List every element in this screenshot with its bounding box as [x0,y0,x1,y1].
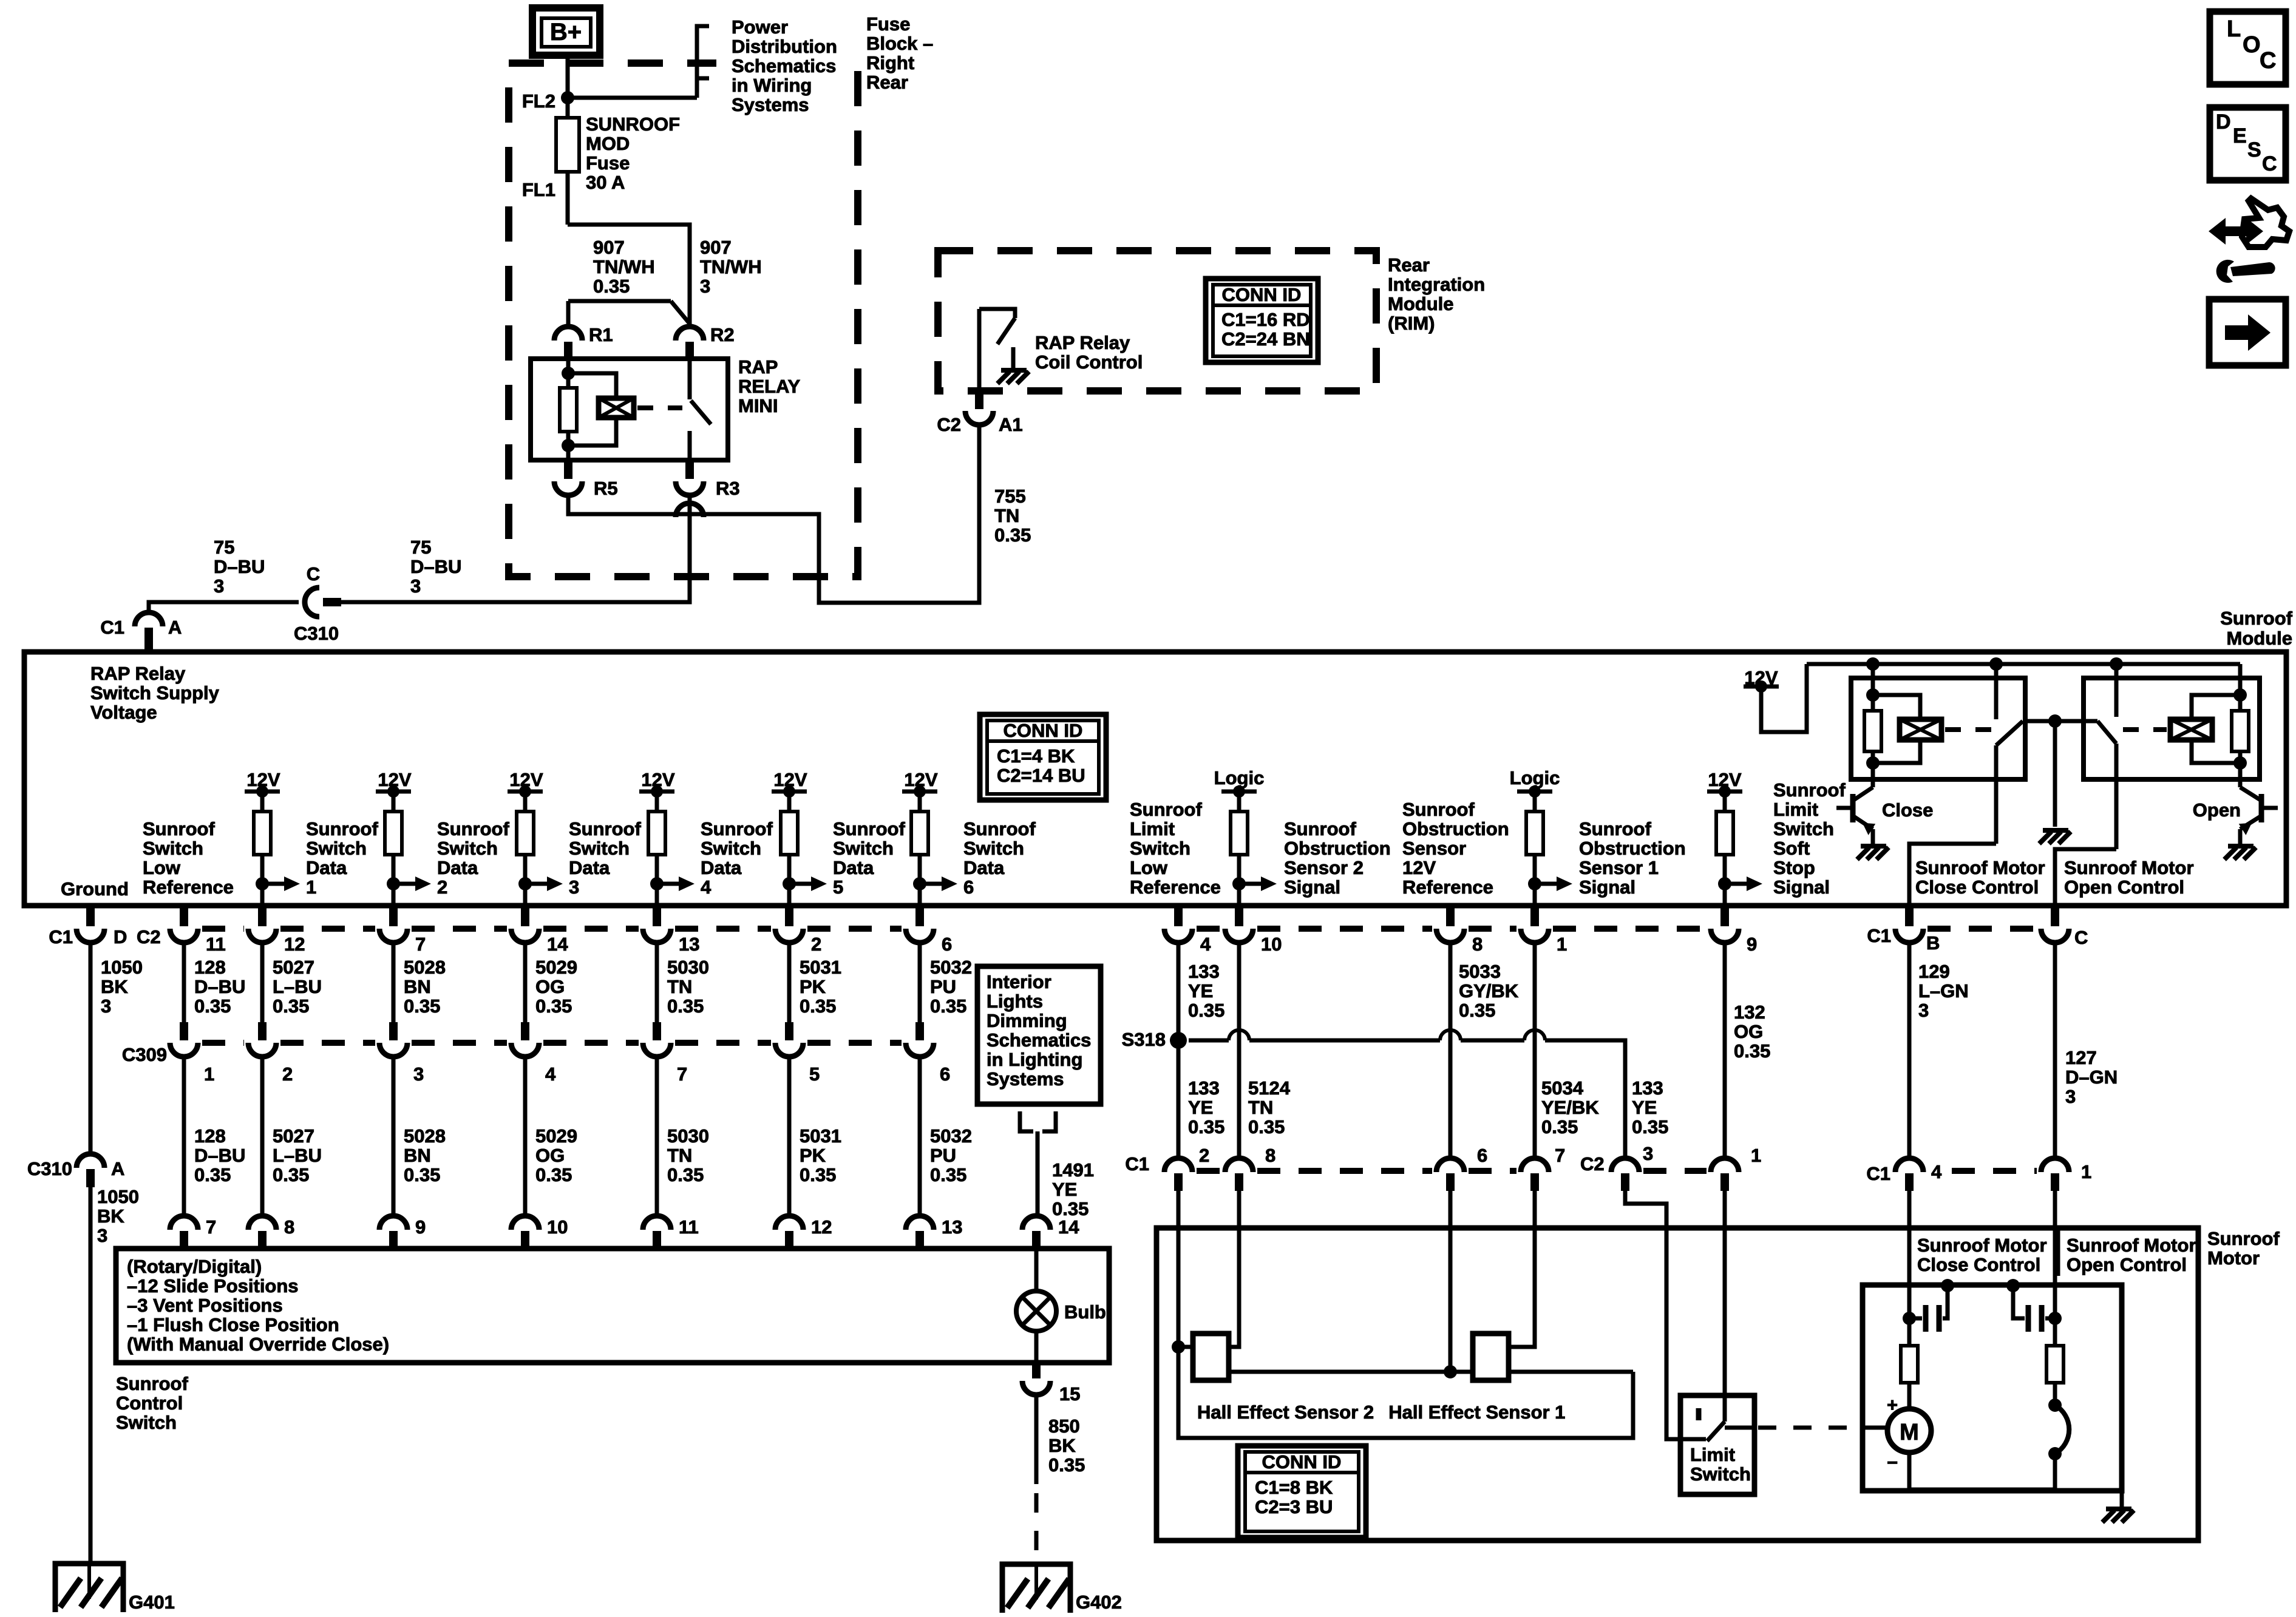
wire sunroof motor close control [1909,844,1996,906]
wire col 648 row1-row2 [392,942,396,1022]
svg-text:G401: G401 [129,1592,175,1613]
svg-text:Sunroof Motor: Sunroof Motor [1915,857,2045,878]
svg-text:5030: 5030 [667,957,709,978]
svg-text:5: 5 [833,876,843,898]
svg-text:Switch: Switch [963,838,1024,859]
svg-text:Data: Data [437,857,478,878]
svg-text:PU: PU [930,1145,956,1166]
connector switch pin 13 [906,1216,934,1230]
svg-text:5124: 5124 [1248,1077,1291,1099]
svg-text:Sensor 1: Sensor 1 [1579,857,1659,878]
svg-text:Sunroof: Sunroof [2207,1228,2280,1249]
wire pin B down [1907,942,1912,1160]
svg-text:RAP Relay: RAP Relay [1035,332,1130,353]
svg-text:C310: C310 [27,1158,72,1179]
motor inner box ground [2120,1491,2124,1507]
svg-text:TN: TN [994,505,1019,526]
wire pin1 to limit switch [1723,1191,1727,1422]
svg-text:SUNROOF: SUNROOF [586,114,680,135]
connector pin 8 row1 [1446,906,1455,926]
svg-text:Logic: Logic [1214,767,1265,788]
svg-text:0.35: 0.35 [667,1164,704,1185]
svg-text:0.35: 0.35 [667,995,704,1017]
svg-text:CONN ID: CONN ID [1004,720,1083,741]
svg-text:S318: S318 [1122,1029,1166,1050]
connector pin 13 row1 [653,906,661,926]
svg-text:C1=4 BK: C1=4 BK [997,745,1075,767]
svg-text:L–BU: L–BU [273,976,322,997]
svg-text:C309: C309 [122,1044,167,1065]
svg-text:BK: BK [1048,1435,1076,1456]
svg-text:C1: C1 [1125,1153,1149,1175]
svg-text:3: 3 [1643,1143,1653,1164]
svg-text:C1: C1 [100,617,124,638]
svg-text:(RIM): (RIM) [1388,313,1435,334]
connector C309 dashed line [202,1040,244,1046]
svg-text:Schematics: Schematics [732,55,836,76]
svg-text:MOD: MOD [586,133,630,154]
svg-text:7: 7 [415,934,426,955]
open relay switch [2114,664,2119,717]
connector switch pin 15 [1032,1363,1041,1378]
connector switch pin 11 [643,1216,671,1230]
transistor Q close [1850,794,1856,822]
svg-text:Low: Low [143,857,181,878]
svg-text:C2: C2 [937,414,961,435]
svg-text:Logic: Logic [1510,767,1560,788]
connector C309 pin 6 [915,1022,924,1040]
svg-text:4: 4 [701,876,712,898]
svg-text:Switch: Switch [116,1412,177,1433]
fuse SUNROOF MOD 30A [566,98,570,118]
svg-text:2: 2 [1199,1145,1209,1166]
svg-text:Open: Open [2193,799,2241,821]
svg-text:3: 3 [413,1063,424,1085]
RAP relay mini box [531,359,728,460]
motor bottom bus [1909,1488,2055,1492]
svg-text:Sunroof Motor: Sunroof Motor [2064,857,2194,878]
icon DESC box [2210,107,2286,180]
open relay resistor [2238,664,2243,711]
svg-text:Ground: Ground [61,878,129,900]
svg-text:–1 Flush Close Position: –1 Flush Close Position [127,1314,339,1335]
svg-text:Limit: Limit [1690,1444,1735,1465]
svg-text:TN/WH: TN/WH [593,256,655,277]
connector switch pin 14 [1022,1216,1050,1230]
svg-text:B+: B+ [550,19,582,46]
relay common ground node [2048,714,2062,728]
capacitor open side [2006,1279,2020,1292]
svg-text:Data: Data [963,857,1005,878]
module conn id box [980,714,1106,800]
icon forward arrow box [2209,299,2286,365]
signal arrow sunroof switch data 1 [256,877,269,890]
relay coil link dashed [637,405,682,410]
svg-text:Sunroof: Sunroof [1773,779,1846,801]
wire pin2 to hall frame [1177,1191,1181,1347]
svg-text:M: M [1900,1420,1919,1445]
connector bottom pin 4 x3145 [1895,1158,1923,1172]
svg-text:Switch Supply: Switch Supply [90,682,220,703]
svg-text:12: 12 [811,1216,832,1238]
svg-text:Sunroof Motor: Sunroof Motor [1917,1235,2047,1256]
svg-text:Voltage: Voltage [90,702,157,723]
svg-text:0.35: 0.35 [535,1164,572,1185]
close relay coil link dashed [1945,727,1992,732]
relay bus 12V [1807,662,2240,666]
wire col 1515 row1-row2 [918,942,922,1022]
wire col 303 row1-row2 [182,942,186,1022]
svg-text:C1=8 BK: C1=8 BK [1255,1477,1333,1498]
svg-text:0.35: 0.35 [1734,1040,1770,1062]
hall effect sensor 2 box [1193,1334,1229,1380]
svg-text:Sunroof: Sunroof [963,818,1036,839]
svg-text:Close: Close [1882,799,1933,821]
svg-text:5030: 5030 [667,1125,709,1147]
svg-text:C310: C310 [294,623,339,644]
svg-text:Sunroof: Sunroof [1402,799,1475,820]
close relay pivot link [2023,719,2055,724]
svg-text:3: 3 [1918,1000,1929,1021]
svg-text:FL2: FL2 [522,90,555,112]
svg-text:755: 755 [994,486,1026,507]
svg-text:Sunroof: Sunroof [1284,818,1356,839]
svg-text:5033: 5033 [1459,961,1501,982]
svg-text:MINI: MINI [738,395,778,416]
connector pin 2 row1 [785,906,793,926]
svg-text:RAP: RAP [738,356,778,378]
svg-text:Schematics: Schematics [987,1029,1091,1051]
interior lights dimming box [977,966,1101,1104]
svg-text:5032: 5032 [930,957,972,978]
svg-text:in Lighting: in Lighting [987,1049,1082,1070]
wire pin7 to hall1 [1509,1191,1535,1347]
svg-text:D: D [2216,110,2231,134]
ground G401 [55,1564,123,1612]
svg-text:Integration: Integration [1388,274,1485,295]
svg-text:R5: R5 [594,478,618,499]
svg-text:FL1: FL1 [522,179,555,200]
svg-text:1: 1 [204,1063,214,1085]
wire FL1 to R2 [568,225,690,327]
wire col 1082 row1-row2 [655,942,659,1022]
svg-text:C: C [2262,152,2277,175]
svg-text:Sunroof: Sunroof [306,818,378,839]
svg-text:Reference: Reference [1130,876,1221,898]
svg-text:Sunroof: Sunroof [116,1373,188,1394]
svg-text:6: 6 [1477,1145,1487,1166]
svg-text:C1: C1 [1867,925,1891,946]
svg-text:1050: 1050 [97,1186,139,1207]
wire R3 to C310 75 D-BU [340,495,690,602]
svg-text:4: 4 [1200,934,1211,955]
svg-text:11: 11 [679,1216,699,1238]
svg-text:Sunroof: Sunroof [437,818,509,839]
svg-text:0.35: 0.35 [1048,1454,1085,1476]
relay coil resistor branch [566,359,571,388]
hall sensor bus [1229,1370,1473,1374]
svg-text:0.35: 0.35 [1052,1198,1089,1219]
motor brush resistor open [2046,1346,2063,1383]
svg-text:0.35: 0.35 [800,1164,836,1185]
svg-text:L–BU: L–BU [273,1145,322,1166]
svg-text:12: 12 [284,934,305,955]
svg-text:0.35: 0.35 [930,995,966,1017]
svg-text:C: C [307,563,320,585]
connector pin 10 row1 [1235,906,1243,926]
svg-text:Fuse: Fuse [866,13,910,35]
svg-text:4: 4 [545,1063,556,1085]
svg-text:L: L [2227,16,2241,42]
svg-text:Open Control: Open Control [2064,876,2184,898]
svg-text:Sunroof: Sunroof [2220,608,2292,629]
svg-text:7: 7 [1555,1145,1565,1166]
svg-text:C2: C2 [1580,1153,1605,1175]
svg-text:TN: TN [667,1145,692,1166]
signal arrow sunroof switch data 4 [650,877,664,890]
connector bottom pin 6 x2389 [1436,1158,1464,1172]
wire 850 BK to G402 [1034,1394,1039,1484]
svg-text:Open Control: Open Control [2067,1254,2187,1275]
svg-text:Switch: Switch [833,838,894,859]
wire pin10 down [1237,942,1241,1160]
connector pin 11 row1 [180,906,188,926]
svg-text:128: 128 [194,1125,226,1147]
svg-text:TN: TN [667,976,692,997]
svg-text:Fuse: Fuse [586,152,630,174]
svg-text:8: 8 [284,1216,294,1238]
svg-text:C: C [2074,927,2088,948]
svg-text:0.35: 0.35 [930,1164,966,1185]
svg-text:Dimming: Dimming [987,1010,1067,1031]
hall effect sensor 1 box [1473,1334,1509,1380]
svg-text:C1: C1 [49,926,73,947]
wire 12V to relay bus [1761,664,1807,732]
connector switch pin 12 [775,1216,803,1230]
ground close transistor [1857,846,1889,859]
capacitor close side [1903,1312,1916,1325]
wire col 865 row1-row2 [523,942,528,1022]
svg-text:1: 1 [1751,1145,1761,1166]
svg-text:6: 6 [963,876,974,898]
ground in RIM [1011,347,1016,368]
fuse block dashed box [509,63,858,577]
svg-text:127: 127 [2065,1047,2097,1068]
hall sensor frame [1172,1340,1185,1354]
connector C2 A1 [975,391,983,409]
signal arrow sunroof switch data 3 [518,877,532,890]
sunroof module box [24,652,2286,906]
connector pin 7 row1 [389,906,398,926]
close relay coil [1873,695,1920,719]
svg-text:850: 850 [1048,1415,1080,1437]
svg-text:5028: 5028 [404,957,446,978]
svg-text:Reference: Reference [143,876,234,898]
svg-text:Motor: Motor [2207,1247,2260,1269]
svg-text:Sunroof: Sunroof [143,818,215,839]
ground open transistor [2224,846,2256,859]
close relay switch [1994,664,1999,719]
svg-text:4: 4 [1931,1161,1942,1182]
connector pin 1 row1 [1530,906,1539,926]
svg-text:Obstruction: Obstruction [1402,818,1509,839]
svg-text:–12 Slide Positions: –12 Slide Positions [127,1275,299,1297]
svg-text:907: 907 [593,237,625,258]
wire S318 down [1177,1040,1181,1160]
svg-text:Data: Data [701,857,742,878]
pullup resistor sunroof switch data 3 [517,812,534,855]
connector pin 6 row1 [915,906,924,926]
motor inner box [1863,1285,2122,1491]
wire open branch [2053,1286,2057,1318]
svg-text:1: 1 [2081,1161,2091,1182]
svg-text:D–BU: D–BU [194,1145,245,1166]
svg-text:RAP Relay: RAP Relay [90,663,186,684]
limit switch contact [1696,1408,1702,1420]
svg-text:D–BU: D–BU [410,556,461,577]
svg-text:A: A [168,617,182,638]
svg-text:R1: R1 [589,324,613,345]
svg-text:Rear: Rear [1388,254,1430,276]
svg-text:Sunroof: Sunroof [1579,818,1651,839]
svg-text:Switch: Switch [143,838,203,859]
wire tap to R1 [568,299,671,303]
svg-text:Data: Data [306,857,347,878]
wire pin C down [2053,942,2057,1160]
svg-text:8: 8 [1472,934,1483,955]
svg-text:BN: BN [404,976,431,997]
svg-text:133: 133 [1632,1077,1663,1099]
svg-text:(With Manual Override Close): (With Manual Override Close) [127,1334,389,1355]
connector pin 4 row1 [1174,906,1183,926]
limit switch box [1680,1395,1754,1494]
svg-text:0.35: 0.35 [1248,1116,1285,1137]
svg-text:3: 3 [97,1225,107,1246]
svg-text:Switch: Switch [701,838,761,859]
svg-text:−: − [1887,1452,1898,1473]
pullup resistor sunroof switch data 1 [254,812,271,855]
svg-text:0.35: 0.35 [535,995,572,1017]
svg-text:1: 1 [1557,934,1567,955]
svg-text:Systems: Systems [987,1068,1064,1090]
wire pin1 to motor open [2053,1191,2057,1286]
svg-text:5032: 5032 [930,1125,972,1147]
svg-text:5028: 5028 [404,1125,446,1147]
svg-text:O: O [2243,32,2261,58]
svg-text:0.35: 0.35 [194,995,231,1017]
connector C309 pin 7 [653,1022,661,1040]
connector C310 A [76,1154,104,1168]
connector switch pin 8 [248,1216,276,1230]
svg-text:Control: Control [116,1392,183,1414]
wire pin1 down [1533,942,1537,1160]
svg-text:12V: 12V [1402,857,1436,878]
pullup resistor sunroof switch data 5 [781,812,798,855]
wire C310 to C1-A [149,602,299,612]
connector R2 [676,327,704,341]
connector R3 [685,460,694,479]
svg-text:14: 14 [547,934,568,955]
svg-text:in Wiring: in Wiring [732,75,812,96]
svg-text:BK: BK [97,1205,124,1227]
open relay pivot link [2055,719,2097,724]
svg-text:Distribution: Distribution [732,36,837,57]
signal arrow sunroof switch data 2 [387,877,400,890]
svg-text:9: 9 [415,1216,426,1238]
label divider [2056,1228,2060,1276]
svg-text:Obstruction: Obstruction [1284,838,1391,859]
svg-text:Data: Data [833,857,874,878]
node FL2 [561,91,574,104]
svg-text:A: A [111,1158,124,1179]
svg-text:0.35: 0.35 [1188,1000,1224,1021]
svg-text:0.35: 0.35 [1632,1116,1668,1137]
svg-text:D–GN: D–GN [2065,1066,2118,1088]
svg-text:Switch: Switch [569,838,630,859]
svg-text:0.35: 0.35 [194,1164,231,1185]
svg-text:Close Control: Close Control [1917,1254,2040,1275]
signal arrow sunroof switch data 5 [783,877,796,890]
connector pin B row1 [1905,906,1914,926]
svg-text:R2: R2 [710,324,735,345]
svg-text:Switch: Switch [437,838,498,859]
svg-text:133: 133 [1188,961,1220,982]
svg-text:D–BU: D–BU [194,976,245,997]
wire R5 to RIM A1 755 TN [568,424,979,603]
svg-text:Block –: Block – [866,33,933,54]
wire pin3 to limit switch [1625,1188,1680,1439]
svg-text:C: C [2260,48,2276,73]
svg-text:Sunroof: Sunroof [833,818,905,839]
svg-text:1050: 1050 [101,957,143,978]
motor conn id box [1238,1446,1366,1537]
svg-text:3: 3 [410,575,421,597]
svg-text:0.35: 0.35 [273,995,309,1017]
svg-text:YE: YE [1052,1179,1077,1200]
wire pin4 down to S318 [1177,942,1181,1040]
connector C309 pin 5 [785,1022,793,1040]
svg-text:5031: 5031 [800,1125,841,1147]
connector C1 A [135,612,163,626]
svg-text:Interior: Interior [987,971,1051,992]
svg-text:Sunroof: Sunroof [569,818,641,839]
connector pin 12 row1 [258,906,267,926]
svg-text:5027: 5027 [273,1125,314,1147]
svg-text:D: D [114,926,127,947]
svg-text:Sunroof Motor: Sunroof Motor [2067,1235,2196,1256]
svg-text:0.35: 0.35 [994,524,1031,546]
connector pin C row1 [2051,906,2059,926]
svg-text:Hall Effect Sensor 2 Hall Eff: Hall Effect Sensor 2 Hall Effect Sensor … [1197,1402,1565,1423]
svg-text:C2=24 BN: C2=24 BN [1221,328,1310,350]
svg-text:0.35: 0.35 [593,276,630,297]
svg-text:D–BU: D–BU [214,556,265,577]
wire pin D down [89,942,93,1154]
svg-text:907: 907 [700,237,732,258]
svg-text:Data: Data [569,857,610,878]
svg-text:2: 2 [811,934,821,955]
svg-text:OG: OG [535,976,565,997]
svg-text:Signal: Signal [1579,876,1635,898]
svg-text:75: 75 [410,537,431,558]
svg-text:Close Control: Close Control [1915,876,2039,898]
connector C309 pin 3 [389,1022,398,1040]
svg-text:PK: PK [800,1145,826,1166]
svg-text:C2=14 BU: C2=14 BU [997,765,1085,786]
svg-text:6: 6 [942,934,952,955]
svg-text:Switch: Switch [306,838,367,859]
wire S318 to C2 pin3 [1189,1039,1229,1043]
